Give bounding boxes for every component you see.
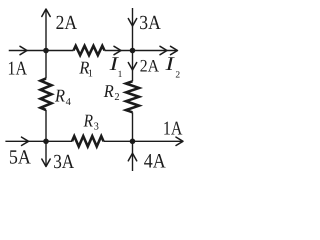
svg-text:2A: 2A [56, 12, 78, 34]
svg-text:1: 1 [118, 70, 123, 80]
svg-text:3A: 3A [139, 12, 161, 34]
svg-text:3A: 3A [53, 151, 74, 173]
svg-text:R: R [103, 81, 114, 101]
svg-text:2A: 2A [140, 55, 160, 75]
svg-text:1A: 1A [163, 119, 183, 140]
svg-text:1A: 1A [8, 58, 28, 79]
svg-text:2: 2 [175, 71, 180, 81]
svg-text:R: R [54, 86, 65, 106]
svg-text:4A: 4A [144, 151, 166, 173]
svg-text:1: 1 [88, 68, 93, 79]
svg-text:3: 3 [94, 122, 99, 133]
svg-text:4: 4 [66, 97, 72, 108]
svg-text:2: 2 [114, 92, 119, 103]
svg-text:R: R [83, 111, 93, 131]
svg-text:I: I [164, 54, 175, 75]
svg-text:5A: 5A [9, 146, 31, 168]
